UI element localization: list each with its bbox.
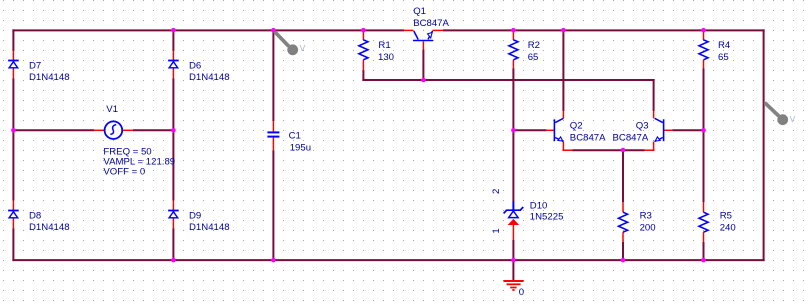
svg-text:R3: R3: [640, 210, 652, 221]
node top bus R1 column: [361, 28, 366, 33]
svg-text:200: 200: [640, 223, 656, 234]
svg-text:1: 1: [491, 228, 502, 233]
wire D6/D9 column x=173.4: [172, 30, 174, 261]
wire ground stub x=513.4: [512, 260, 514, 280]
wire R3 column x=623: [622, 150, 624, 261]
wire C1 column x=273.4: [272, 30, 274, 261]
node Q2 base / x513.4: [511, 128, 516, 133]
transistor Q1: [404, 6, 450, 49]
node top bus R2 column: [511, 28, 516, 33]
svg-text:BC847A: BC847A: [613, 132, 649, 143]
svg-text:BC847A: BC847A: [413, 18, 449, 29]
svg-text:BC847A: BC847A: [570, 132, 606, 143]
resistor R2: [509, 30, 540, 68]
node Q3 base / x703.5: [701, 128, 706, 133]
node bottom bus ground: [511, 258, 516, 263]
svg-text:1N5225: 1N5225: [530, 212, 564, 223]
zener diode D10: [491, 189, 563, 240]
capacitor C1: [267, 121, 311, 154]
node bottom bus R3: [621, 258, 626, 263]
transistor Q3: [613, 111, 673, 150]
svg-text:V: V: [300, 43, 306, 53]
svg-text:Q1: Q1: [413, 6, 426, 17]
node emitter row / R3 top: [621, 148, 626, 153]
wire R2/D10 column x=513.4: [512, 69, 514, 262]
node top bus Q2 collector: [561, 28, 566, 33]
svg-text:2: 2: [491, 189, 502, 194]
svg-text:D8: D8: [29, 210, 41, 221]
wire V1 row y=130.3: [13, 129, 173, 131]
resistor R5: [699, 202, 736, 242]
wire left column x=13.4: [12, 29, 14, 261]
svg-text:240: 240: [720, 223, 736, 234]
node top bus D6 column: [171, 28, 176, 33]
svg-text:D6: D6: [189, 60, 201, 71]
svg-text:0: 0: [519, 287, 524, 298]
svg-text:V1: V1: [106, 104, 118, 115]
diode D6: [168, 51, 229, 84]
wire bottom bus y=260.1: [12, 259, 764, 261]
wire right edge x=763.6: [763, 29, 765, 261]
node top bus C1 column: [271, 28, 276, 33]
node bottom bus R5: [701, 258, 706, 263]
svg-text:Q2: Q2: [570, 120, 583, 131]
voltage probe marker 1: [275, 32, 306, 56]
node V1 left: [11, 128, 16, 133]
svg-text:195u: 195u: [290, 143, 311, 154]
voltage source V1: [94, 104, 175, 177]
node Q1 base / y80 wire: [421, 78, 426, 83]
wire top bus: [12, 29, 764, 31]
node bottom bus C1: [271, 258, 276, 263]
svg-text:D9: D9: [189, 210, 201, 221]
svg-text:VOFF = 0: VOFF = 0: [103, 166, 145, 177]
svg-text:130: 130: [378, 52, 394, 63]
wire Q2 base from node x=513.4: [513, 129, 546, 131]
svg-text:65: 65: [528, 52, 539, 63]
resistor R1: [359, 30, 394, 70]
svg-text:R2: R2: [528, 40, 540, 51]
wire emitter row y=150.2: [573, 149, 645, 151]
node bottom bus D9: [171, 258, 176, 263]
node top bus R4 column: [701, 28, 706, 33]
svg-text:V: V: [790, 114, 796, 124]
wire R1 column x=363.4 elbow to y=80 row: [362, 70, 654, 81]
svg-text:D1N4148: D1N4148: [29, 222, 70, 233]
wire Q1 base column x=423.4: [422, 50, 424, 81]
resistor R4: [699, 30, 731, 68]
svg-text:R1: R1: [378, 40, 390, 51]
resistor R3: [619, 202, 656, 242]
diode D7: [8, 51, 69, 84]
ground 0: [504, 281, 525, 298]
svg-text:D1N4148: D1N4148: [189, 72, 230, 83]
svg-text:R4: R4: [718, 40, 731, 51]
svg-text:R5: R5: [720, 210, 732, 221]
svg-text:D10: D10: [530, 201, 548, 212]
wire R4/R5 column x=703.5: [703, 69, 705, 262]
svg-text:D1N4148: D1N4148: [189, 222, 230, 233]
svg-text:65: 65: [718, 52, 729, 63]
svg-text:C1: C1: [289, 130, 301, 141]
wire Q3 collector column x=653.6: [653, 79, 655, 111]
transistor Q2: [546, 111, 606, 150]
svg-text:D1N4148: D1N4148: [29, 72, 70, 83]
diode D8: [8, 201, 69, 234]
wire Q2 collector column x=563.4: [562, 30, 564, 111]
node junctions (magenta): [11, 28, 706, 263]
svg-text:Q3: Q3: [636, 120, 649, 131]
wire Q3 base to node x=703.5: [672, 129, 703, 131]
svg-text:D7: D7: [29, 60, 41, 71]
diode D9: [168, 201, 229, 234]
node V1 right: [171, 128, 176, 133]
voltage probe marker 2: [765, 103, 796, 126]
